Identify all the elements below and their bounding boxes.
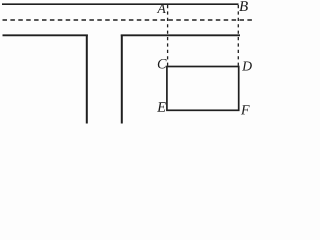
left wall vertical bbox=[86, 35, 88, 124]
right wall vertical bbox=[121, 35, 123, 124]
rectangle CDEF bbox=[167, 67, 239, 111]
label C bbox=[158, 59, 167, 69]
label F bbox=[241, 105, 250, 114]
mid solid line left segment bbox=[3, 34, 88, 36]
dashed horizontal line bbox=[3, 19, 254, 21]
label A bbox=[157, 4, 166, 13]
mid solid line right segment bbox=[121, 34, 240, 36]
label B bbox=[239, 1, 248, 11]
dashed vertical from B to D bbox=[237, 5, 239, 66]
label E bbox=[157, 102, 166, 112]
top solid line ending at B bbox=[2, 3, 239, 5]
dashed vertical from A to C bbox=[167, 5, 169, 66]
label D bbox=[242, 62, 252, 71]
